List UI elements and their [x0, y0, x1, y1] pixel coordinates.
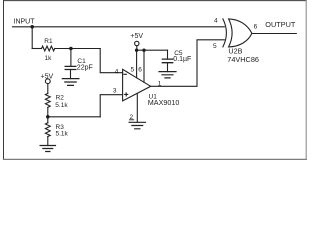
svg-text:2: 2 — [130, 114, 134, 121]
svg-text:5: 5 — [213, 43, 217, 50]
ground under C5 — [159, 72, 176, 78]
ground under R3 — [40, 146, 55, 152]
capacitor C5 stem top — [167, 50, 169, 59]
border frame top — [4, 0, 307, 2]
svg-text:5: 5 — [131, 66, 135, 73]
wire: +5V to R2 — [47, 84, 49, 94]
U1 minus mark — [124, 73, 127, 75]
wire: junction to R3 — [47, 117, 49, 123]
wire: R1 rail left lead — [32, 48, 41, 50]
wire: R3 to ground — [47, 137, 49, 146]
node: INPUT junction dot — [30, 25, 34, 29]
+5V circle for R2 — [45, 79, 50, 84]
XOR gate U2B input arc — [223, 19, 227, 47]
capacitor C5 stem bottom — [167, 63, 169, 72]
+5V circle for U1 — [135, 41, 139, 45]
border frame left — [3, 1, 5, 160]
wire: riser down to U1 pin 4 — [100, 49, 122, 73]
wire: drop from INPUT rail to R1 — [31, 27, 33, 49]
capacitor C5 plates — [162, 59, 172, 63]
svg-text:+5V: +5V — [41, 74, 54, 81]
capacitor C1 stem top — [70, 49, 72, 67]
svg-text:74VHC86: 74VHC86 — [227, 55, 259, 64]
border frame right — [305, 1, 307, 160]
ground under C1 — [62, 79, 79, 86]
resistor R2 — [45, 93, 50, 107]
XOR gate U2B body — [229, 19, 252, 47]
node: divider junction dot — [46, 115, 50, 119]
wire: R1 to C1 node and pin-4 riser — [55, 48, 100, 50]
svg-text:+5V: +5V — [130, 33, 143, 40]
wire: riser up to U1 pin 3 — [100, 95, 122, 117]
svg-text:22pF: 22pF — [77, 64, 93, 71]
svg-text:4: 4 — [214, 18, 218, 25]
wire: XOR output to OUTPUT — [252, 33, 296, 35]
svg-text:OUTPUT: OUTPUT — [265, 20, 296, 29]
border frame bottom — [4, 158, 307, 160]
op-amp U1 triangle — [123, 69, 151, 101]
U1 plus mark — [125, 93, 128, 96]
svg-text:5.1k: 5.1k — [56, 131, 69, 138]
ground under U1 pin 2 — [129, 122, 145, 129]
resistor R1 — [42, 46, 55, 51]
svg-text:6: 6 — [254, 23, 258, 30]
node: +5V rail dot 2 — [142, 49, 145, 52]
U1 pin 2 label underline — [129, 119, 133, 121]
svg-text:5.1k: 5.1k — [55, 102, 68, 109]
svg-text:6: 6 — [138, 66, 142, 73]
svg-text:R1: R1 — [44, 38, 53, 45]
svg-text:4: 4 — [115, 69, 119, 76]
svg-text:R2: R2 — [56, 95, 65, 102]
wire: U1 pin 5 riser — [136, 50, 138, 77]
wire: +5V rail to C5 — [137, 49, 168, 51]
wire: U1 output to XOR pin 5 — [151, 40, 225, 87]
wire: R2 to junction — [47, 107, 49, 116]
svg-text:MAX9010: MAX9010 — [148, 98, 180, 107]
svg-text:INPUT: INPUT — [14, 19, 36, 26]
svg-text:3: 3 — [113, 87, 117, 94]
wire: U1 pin 6 riser — [143, 50, 145, 82]
resistor R3 — [45, 123, 50, 137]
node: +5V rail dot 1 — [135, 49, 138, 52]
svg-text:1: 1 — [158, 81, 162, 88]
capacitor C1 stem bottom — [70, 70, 72, 79]
capacitor C1 plates — [65, 66, 76, 69]
node: R1/C1 junction dot — [69, 47, 73, 51]
wire: INPUT rail to XOR pin 4 — [13, 26, 225, 28]
wire: U1 pin 2 stem — [136, 93, 138, 122]
svg-text:0.1µF: 0.1µF — [173, 56, 191, 63]
svg-text:1k: 1k — [45, 55, 53, 62]
wire: divider node to pin-3 riser — [48, 116, 100, 118]
wire: +5V circle to rail — [136, 46, 138, 51]
